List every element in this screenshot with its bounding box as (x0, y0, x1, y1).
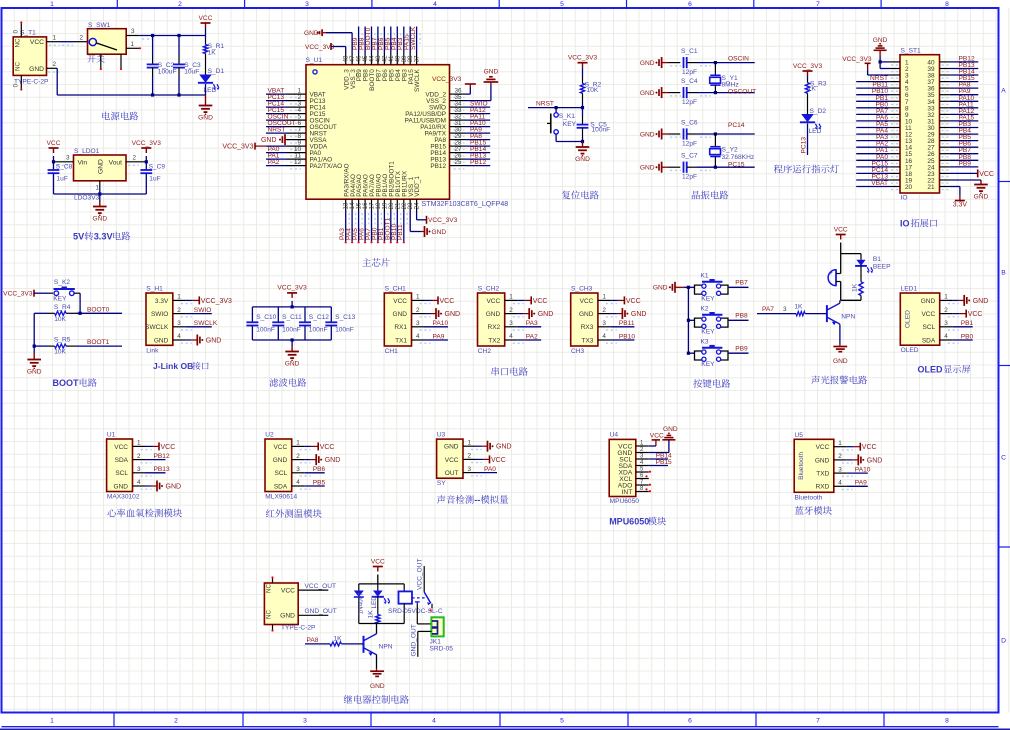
TYPE-C bottom NC pin (272, 625, 274, 630)
svg-text:VCC: VCC (281, 588, 295, 595)
svg-text:SCL: SCL (275, 470, 288, 477)
svg-text:PA2/TX/AO: PA2/TX/AO (310, 163, 343, 170)
svg-text:BOOT0: BOOT0 (87, 306, 110, 313)
svg-text:1K: 1K (852, 283, 859, 292)
svg-text:LED1: LED1 (901, 286, 918, 293)
svg-text:PA3: PA3 (526, 320, 538, 327)
wire/net PA4 (856, 133, 889, 135)
U1 pin 46 PB9 (358, 54, 360, 65)
svg-text:VCC_3V3: VCC_3V3 (842, 56, 872, 63)
junction (151, 34, 154, 37)
wire bottom rail (57, 94, 205, 96)
svg-text:OSCIN: OSCIN (728, 55, 749, 62)
connector T1 TYPE-C-2P (13, 37, 46, 76)
svg-text:100nF: 100nF (256, 327, 275, 334)
wire/net PA2 (266, 165, 287, 167)
capacitor S_C4 12pF (669, 92, 681, 94)
svg-text:3: 3 (296, 466, 300, 473)
svg-text:GND: GND (575, 156, 590, 163)
svg-text:S_Y2: S_Y2 (722, 147, 738, 154)
svg-text:S_LDO1: S_LDO1 (74, 148, 100, 155)
ground GND (291, 340, 293, 346)
U1 pin 41 PB5 (390, 54, 392, 65)
wire/net PB1 (856, 100, 889, 102)
svg-text:VCC: VCC (816, 444, 830, 451)
svg-text:1: 1 (416, 294, 420, 301)
wire top rail (252, 306, 331, 308)
svg-text:GND: GND (92, 215, 107, 222)
svg-text:4: 4 (602, 333, 606, 340)
svg-text:KEY: KEY (701, 361, 715, 368)
svg-text:2: 2 (416, 307, 420, 314)
capacitor S_C8 1uF (53, 162, 55, 170)
serial module S_CH1 (384, 293, 411, 346)
capacitor S_C5 100nF (582, 108, 584, 116)
svg-text:SWCLK: SWCLK (410, 26, 417, 50)
wire/net PB0 (856, 107, 889, 109)
svg-text:12pF: 12pF (682, 141, 697, 148)
svg-text:1: 1 (50, 718, 54, 725)
heart-rate module U1 MAX30102 (107, 439, 133, 492)
svg-text:4: 4 (416, 333, 420, 340)
wire/net PA4 (351, 211, 353, 241)
wire/net PA3 (856, 140, 889, 142)
wire/net OSCOUT (266, 126, 287, 128)
U1 pin 13 PA3/RX/AO (345, 199, 347, 211)
svg-text:1K: 1K (208, 49, 217, 56)
caption IR temperature module (266, 509, 275, 517)
svg-text:JK1: JK1 (430, 638, 442, 645)
wire/net PB0 (377, 211, 379, 241)
capacitor S_C3 branch (178, 36, 180, 57)
U1 pin 48 VDD_3 (345, 54, 347, 65)
right ruler (999, 181, 1010, 183)
wire/net PB14 (466, 152, 491, 154)
U1 pin 23 VSS_1 (409, 199, 411, 211)
svg-text:2: 2 (177, 307, 181, 314)
ground GND (582, 142, 584, 148)
svg-text:2: 2 (296, 453, 300, 460)
svg-text:GND: GND (867, 457, 883, 464)
wire/net PA15 (950, 120, 978, 122)
top ruler (116, 0, 118, 8)
svg-text:5: 5 (560, 718, 564, 725)
svg-text:1uF: 1uF (57, 176, 68, 183)
wire/net BOOT1 (390, 211, 392, 241)
svg-text:IO: IO (900, 219, 910, 229)
U1 pin 44 BOOT0 (371, 54, 373, 65)
svg-text:4: 4 (509, 333, 513, 340)
wire U4 GND (649, 452, 669, 454)
svg-text:K1: K1 (701, 273, 709, 280)
svg-text:U3: U3 (437, 432, 446, 439)
svg-text:MPU6050: MPU6050 (610, 498, 640, 505)
svg-text:8: 8 (945, 1, 949, 8)
svg-text:RX3: RX3 (581, 324, 594, 331)
svg-text:PB9: PB9 (735, 346, 748, 353)
svg-text:RX2: RX2 (488, 324, 501, 331)
svg-text:S_T1: S_T1 (20, 30, 36, 37)
svg-text:GND: GND (640, 165, 655, 172)
ST1 pin23 wire to VCC (950, 172, 978, 174)
svg-text:GND_OUT: GND_OUT (410, 624, 417, 656)
wire/net PC15 (266, 113, 287, 115)
svg-text:10uF: 10uF (184, 69, 199, 76)
wire emitter to gnd (839, 324, 841, 344)
svg-text:STM32F103C8T6_LQFP48: STM32F103C8T6_LQFP48 (422, 200, 509, 208)
svg-text:TX2: TX2 (488, 337, 500, 344)
wire PC13 (807, 124, 809, 156)
svg-text:2: 2 (53, 61, 57, 68)
svg-text:VCC: VCC (533, 298, 548, 305)
svg-text:SDA: SDA (274, 483, 288, 490)
svg-text:3: 3 (303, 718, 307, 725)
svg-text:2: 2 (944, 307, 948, 314)
capacitor S_C7 12pF (669, 166, 681, 168)
wire VCC rail top (140, 35, 206, 37)
svg-text:Bluetooth: Bluetooth (798, 452, 805, 480)
ST1 pin21 wire to 3.3V (950, 186, 960, 188)
svg-text:MAX30102: MAX30102 (107, 494, 140, 501)
power VCC_3V3 (426, 216, 428, 224)
svg-text:OSCOUT: OSCOUT (728, 89, 756, 96)
svg-text:S_ST1: S_ST1 (901, 48, 921, 55)
svg-text:VCC: VCC (921, 311, 935, 318)
wire BOOT0 (76, 312, 123, 314)
relay NO contact (431, 604, 433, 609)
bottom ruler (2, 726, 999, 728)
ground GND (376, 669, 378, 672)
svg-text:K3: K3 (701, 339, 709, 346)
svg-text:100nF: 100nF (282, 327, 301, 334)
svg-text:VCC: VCC (199, 15, 213, 22)
capacitor S_C10 100nF (251, 307, 253, 322)
wire/net PA12 (466, 113, 491, 115)
wire base PA8 (305, 643, 330, 645)
svg-text:S_D1: S_D1 (208, 68, 225, 75)
caption alarm circuit (811, 376, 819, 385)
wire/net PB4 (396, 27, 398, 54)
svg-text:S_C11: S_C11 (282, 314, 302, 321)
svg-text:37: 37 (414, 55, 421, 63)
svg-text:S_H1: S_H1 (146, 286, 163, 293)
svg-text:SWIO: SWIO (151, 311, 168, 318)
junction (581, 106, 584, 109)
svg-text:4: 4 (137, 479, 141, 486)
wire/net PA0 (266, 152, 287, 154)
svg-text:GND: GND (640, 90, 655, 97)
wire/net PA9 (950, 94, 978, 96)
svg-text:OUT: OUT (445, 470, 459, 477)
relay coil SRD-05VDC-SL-C (403, 584, 405, 592)
svg-text:NPN: NPN (841, 313, 855, 320)
power flag VCC for LDO (49, 147, 59, 149)
caption relay control circuit (344, 695, 353, 703)
svg-text:GND: GND (538, 311, 554, 318)
wire/net SWCLK (416, 27, 418, 54)
wire PB8 (728, 319, 749, 321)
svg-text:VCC: VCC (30, 39, 44, 46)
wire/net BOOT0 (371, 27, 373, 54)
svg-text:2: 2 (80, 34, 84, 41)
svg-text:5V: 5V (73, 232, 85, 242)
ground GND (99, 194, 101, 201)
svg-text:GND: GND (974, 193, 989, 200)
wire GND net down (56, 68, 58, 95)
wire/net PB5 (950, 140, 978, 142)
no-connects U4 pins 5-8 (649, 471, 651, 473)
svg-text:32.768KHz: 32.768KHz (722, 154, 755, 161)
wire/net PB12 (466, 165, 491, 167)
svg-text:GND: GND (198, 114, 213, 121)
power VCC (373, 566, 383, 568)
wire/net NRST (856, 81, 889, 83)
wire VCC_OUT (298, 589, 328, 591)
svg-text:C: C (1001, 455, 1006, 462)
wire/net PA6 (856, 120, 889, 122)
svg-text:3: 3 (416, 320, 420, 327)
wire base (805, 313, 827, 315)
junction (145, 160, 148, 163)
caption run indicator (774, 165, 783, 174)
svg-text:GND: GND (921, 298, 936, 305)
wire BOOT1 (76, 345, 123, 347)
junction (52, 160, 55, 163)
svg-text:1: 1 (50, 1, 54, 8)
svg-text:1: 1 (944, 294, 948, 301)
svg-text:3: 3 (305, 1, 309, 8)
svg-text:4: 4 (838, 480, 842, 487)
LDO pin3 Vin (54, 161, 74, 163)
wire/net PB6 (383, 27, 385, 54)
wire PC14 (697, 133, 755, 135)
resistor 1K base (796, 312, 805, 316)
wire/net PA10 (466, 126, 491, 128)
U1 pin 16 PA6/AO (364, 199, 366, 211)
svg-text:Link: Link (146, 347, 159, 354)
svg-text:PA2: PA2 (268, 159, 280, 166)
svg-text:U4: U4 (610, 432, 619, 439)
MPU6050 module U4 (609, 439, 636, 496)
svg-text:S_CH1: S_CH1 (385, 286, 407, 293)
wire/net PB14 (950, 74, 978, 76)
svg-text:2: 2 (509, 307, 513, 314)
wire emitter (376, 655, 378, 669)
svg-text:+: + (829, 271, 833, 277)
junction (151, 93, 154, 96)
svg-text:GND: GND (484, 69, 499, 76)
wire LED to bottom rail (205, 84, 207, 95)
wire/net PA5 (856, 127, 889, 129)
IR temperature module U2 MLX90614 (265, 439, 292, 492)
svg-text:SRD-05: SRD-05 (430, 646, 454, 653)
svg-text:3: 3 (783, 306, 787, 313)
power VCC_3V3 (287, 292, 297, 294)
svg-text:PB10: PB10 (619, 333, 635, 340)
svg-text:NC: NC (266, 583, 273, 593)
wire/net SWIO (466, 106, 491, 108)
wire/net PB10 (396, 211, 398, 241)
wire bottom (54, 193, 147, 195)
svg-text:GND: GND (445, 311, 461, 318)
wire VSS_2 to GND (466, 100, 491, 102)
svg-text:8: 8 (945, 718, 949, 725)
svg-text:1K: 1K (794, 304, 803, 311)
wire/net PB11 (403, 211, 405, 241)
T1 bottom NC pin (20, 75, 22, 88)
svg-text:4: 4 (296, 479, 300, 486)
wire/net PA1 (266, 158, 287, 160)
wire/net PA2 (856, 146, 889, 148)
pushbutton K3 KEY -> PB9 (687, 352, 690, 355)
wire/net PA3 (345, 211, 347, 241)
capacitor S_C11 100nF (277, 307, 279, 322)
svg-text:B: B (1001, 270, 1006, 277)
svg-text:PB0: PB0 (961, 333, 974, 340)
svg-text:3: 3 (66, 154, 70, 161)
svg-text:VCC_OUT: VCC_OUT (305, 583, 337, 590)
svg-text:VCC: VCC (161, 444, 176, 451)
svg-text:3: 3 (177, 320, 181, 327)
wire VSS_1 to GND (409, 211, 411, 232)
svg-text:1: 1 (96, 185, 100, 192)
svg-text:VCC: VCC (320, 444, 335, 451)
wire VDD_1 to VCC_3V3 (416, 211, 418, 220)
svg-text:6: 6 (688, 1, 692, 8)
wire NRST (528, 107, 583, 109)
svg-text:S_C1: S_C1 (681, 48, 698, 55)
wire left rail (33, 313, 35, 352)
wire bottom rail (359, 623, 404, 625)
svg-text:B1: B1 (873, 256, 881, 263)
switch S_SW1 (88, 29, 127, 55)
wire/net PA0 (856, 159, 889, 161)
svg-text:TX1: TX1 (395, 337, 407, 344)
svg-text:PA9: PA9 (433, 333, 445, 340)
svg-text:VCC: VCC (580, 298, 594, 305)
svg-text:NC: NC (15, 38, 22, 48)
wire top (841, 253, 861, 255)
bluetooth module U5 (794, 439, 834, 492)
svg-text:SDA: SDA (922, 337, 936, 344)
svg-text:KEY: KEY (701, 328, 715, 335)
relay contact dashed link (412, 597, 425, 599)
svg-text:KEY: KEY (53, 296, 67, 303)
svg-text:1: 1 (296, 440, 300, 447)
svg-text:25: 25 (455, 159, 463, 166)
wire/net PB3 (403, 27, 405, 54)
U1 pin 15 PA5/AO (358, 199, 360, 211)
U1 pin 24 VDD_1 (416, 199, 418, 211)
U1 pin 21 PB10/TX (396, 199, 398, 211)
wire/net PB3 (950, 127, 978, 129)
svg-text:3: 3 (838, 466, 842, 473)
svg-text:PA9: PA9 (855, 480, 867, 487)
ground (490, 82, 492, 85)
wire/net PA7 (856, 113, 889, 115)
wire/net PA8 (950, 87, 978, 89)
svg-text:3: 3 (602, 320, 606, 327)
svg-text:PC14: PC14 (728, 122, 745, 129)
svg-text:VCC_3V3: VCC_3V3 (428, 217, 458, 224)
wire/net PB12 (950, 61, 978, 63)
wire button rail (687, 287, 689, 353)
wire GND_OUT (418, 630, 432, 632)
svg-text:S_R5: S_R5 (54, 337, 71, 344)
wire/net PC13 (266, 100, 287, 102)
svg-text:2: 2 (137, 453, 141, 460)
wire/net PA11 (950, 107, 978, 109)
svg-text:CH2: CH2 (478, 348, 492, 355)
wire GND to ST1 pins 1-2 (879, 57, 881, 69)
wire PB7 (728, 286, 749, 288)
LDO pin2 Vout (126, 161, 146, 163)
svg-text:3.3V: 3.3V (155, 298, 169, 305)
svg-text:1uF: 1uF (149, 176, 160, 183)
wire/net PB13 (466, 158, 491, 160)
svg-text:LDO3V3: LDO3V3 (74, 195, 100, 202)
caption heart-rate module (107, 509, 116, 517)
svg-text:GND: GND (640, 131, 655, 138)
svg-text:TXD: TXD (816, 471, 829, 478)
svg-text:S_C7: S_C7 (681, 153, 698, 160)
svg-text:RXD: RXD (816, 484, 830, 491)
wire K2 to BOOT0 row (79, 293, 81, 313)
svg-text:OLED: OLED (918, 365, 944, 375)
wire/net PB6 (950, 146, 978, 148)
svg-text:2: 2 (178, 1, 182, 8)
svg-text:PB9: PB9 (959, 160, 972, 167)
resistor 1K vertical (860, 266, 862, 282)
svg-text:SWCLK: SWCLK (414, 68, 421, 91)
capacitor S_C1 12pF (669, 62, 681, 64)
svg-text:PB5: PB5 (313, 479, 326, 486)
buzzer B1 BEEP (828, 270, 836, 286)
svg-text:1: 1 (509, 294, 513, 301)
svg-text:VCC: VCC (486, 298, 500, 305)
svg-text:3: 3 (944, 320, 948, 327)
svg-text:PB15: PB15 (656, 459, 672, 466)
crystal S_Y1 8MHz (714, 61, 717, 64)
capacitor S_C9 1uF (145, 162, 147, 170)
wire/net PB4 (950, 133, 978, 135)
wire top rail (359, 583, 404, 585)
svg-text:S_C12: S_C12 (309, 314, 329, 321)
wire/net PB9 (950, 166, 978, 168)
capacitor S_C2 branch (152, 36, 154, 57)
svg-text:IO: IO (901, 195, 908, 202)
wire/net PB7 (377, 27, 379, 54)
ground (424, 226, 426, 237)
svg-text:PB12: PB12 (154, 453, 170, 460)
wire/net PC13 (856, 179, 889, 181)
svg-text:BEEP: BEEP (873, 263, 891, 270)
pushbutton S_K1 KEY (555, 108, 557, 113)
svg-text:GND: GND (285, 360, 300, 367)
svg-text:GND: GND (29, 66, 44, 73)
svg-text:PA8: PA8 (307, 637, 319, 644)
U1 pin 47 VSS_3 (351, 54, 353, 65)
svg-text:VCC: VCC (445, 457, 459, 464)
svg-text:S_C13: S_C13 (335, 314, 355, 321)
capacitor S_C13 100nF (330, 307, 332, 322)
svg-text:GND: GND (653, 285, 668, 292)
svg-text:BOOT: BOOT (53, 378, 80, 388)
wire/net NRST (266, 132, 287, 134)
U1 pin 39 PB3 (403, 54, 405, 65)
svg-text:GND: GND (640, 60, 655, 67)
svg-text:PB6: PB6 (313, 466, 326, 473)
